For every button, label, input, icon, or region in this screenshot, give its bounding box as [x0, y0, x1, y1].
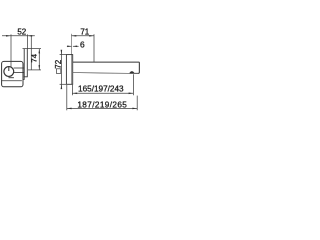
front view spout tube circle: [4, 67, 14, 77]
side view spout bottom edge: [73, 72, 130, 75]
dim sq72 line: [60, 51, 62, 89]
svg-text:52: 52: [17, 27, 26, 36]
svg-text:□72: □72: [54, 59, 63, 73]
svg-text:6: 6: [80, 40, 85, 50]
side view spout outlet bump and tip underside: [129, 72, 138, 74]
dim 187 line: [67, 107, 137, 109]
dim 71 arrows (inside): [72, 35, 77, 37]
front view tube index mark: [8, 67, 10, 71]
dim 165 extension lines: [71, 85, 73, 96]
side view spout top edge: [73, 62, 140, 73]
front view escutcheon plate: [2, 61, 23, 86]
dim 165 arrows (inside): [72, 93, 77, 95]
dim 165 line: [72, 92, 133, 94]
dim 52 extension lines: [10, 34, 12, 67]
dim 6 line left part: [67, 45, 72, 47]
front view side tab: [24, 49, 27, 77]
dim 6 line right part: [73, 45, 79, 47]
dim 74 line: [38, 49, 40, 70]
front view outlet bars: [9, 77, 14, 79]
dim 52 line: [2, 35, 35, 37]
front view outer edge line: [30, 36, 32, 70]
dim 187 extension lines: [66, 85, 68, 110]
dim 71 right extension line: [93, 34, 95, 62]
front view spout body edges: [14, 67, 25, 69]
dim 187 arrows (inside): [67, 108, 72, 110]
svg-text:187/219/265: 187/219/265: [77, 101, 127, 110]
svg-text:165/197/243: 165/197/243: [78, 85, 124, 94]
side view wall plate: [66, 55, 72, 85]
svg-text:71: 71: [80, 27, 89, 36]
svg-text:74: 74: [30, 53, 39, 62]
front view plate seam line: [2, 80, 22, 82]
dim 74 extension lines: [23, 48, 42, 50]
dim sq72 extension lines: [60, 54, 67, 56]
dim sq72 arrows (outside): [61, 50, 63, 55]
dim 52 arrows (outside): [6, 35, 11, 37]
dim 71 line: [72, 35, 95, 37]
front view tab lower step: [23, 77, 24, 80]
dim 6 arrows (outside): [67, 46, 71, 48]
side view wall line: [71, 34, 73, 85]
dim 74 arrows (inside): [39, 49, 41, 54]
